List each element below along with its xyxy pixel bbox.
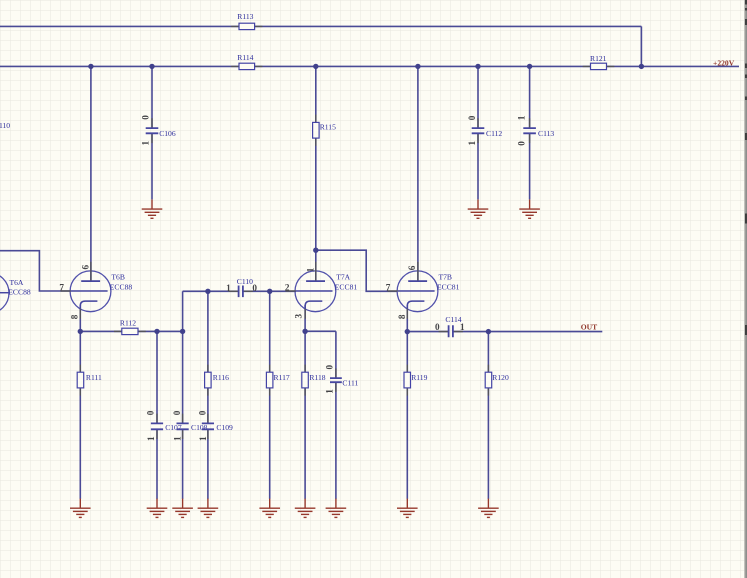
junction R113 branch at bus bbox=[639, 64, 644, 69]
svg-text:1: 1 bbox=[198, 436, 208, 441]
svg-text:R119: R119 bbox=[411, 373, 427, 382]
resistor R113 bbox=[237, 12, 254, 30]
wire C110 right lead bbox=[243, 290, 296, 292]
svg-text:+220V: +220V bbox=[713, 58, 735, 67]
svg-text:8: 8 bbox=[69, 314, 79, 319]
svg-text:C108: C108 bbox=[191, 423, 208, 432]
svg-text:T7B: T7B bbox=[439, 272, 453, 281]
capacitor C111 bbox=[324, 364, 358, 393]
svg-text:0: 0 bbox=[435, 322, 440, 332]
svg-text:C111: C111 bbox=[342, 378, 358, 387]
svg-text:7: 7 bbox=[59, 283, 64, 293]
resistor R120 bbox=[485, 372, 509, 388]
junction T7A cathode node bbox=[302, 329, 307, 334]
svg-text:1: 1 bbox=[324, 389, 334, 394]
triode T6B bbox=[59, 262, 132, 319]
svg-text:0: 0 bbox=[467, 115, 477, 120]
svg-text:C107: C107 bbox=[165, 423, 182, 432]
pin leads R114 bbox=[231, 65, 262, 67]
resistor R114 bbox=[237, 53, 254, 70]
junction R117 branch bbox=[267, 289, 272, 294]
resistor R116 bbox=[205, 372, 230, 388]
triode T7B bbox=[386, 262, 460, 319]
junction R120 branch at output bbox=[486, 329, 491, 334]
wire R119 bbox=[406, 332, 408, 499]
svg-text:C110: C110 bbox=[237, 277, 253, 286]
wire R116 C109 vertical bbox=[207, 291, 209, 423]
wire C108 lower bbox=[182, 429, 184, 499]
svg-text:1: 1 bbox=[140, 140, 150, 145]
svg-text:R112: R112 bbox=[120, 319, 136, 328]
wire bus1 horizontal bbox=[0, 25, 641, 27]
pin leads C111 bbox=[335, 368, 337, 392]
wire C113 upper bbox=[529, 66, 531, 127]
svg-text:0: 0 bbox=[252, 283, 257, 293]
svg-text:3: 3 bbox=[294, 313, 304, 318]
svg-text:2: 2 bbox=[285, 283, 290, 293]
svg-text:1: 1 bbox=[226, 283, 231, 293]
capacitor C106 bbox=[140, 115, 175, 146]
junction T6B cathode node bbox=[78, 329, 83, 334]
junction C107 branch bbox=[154, 329, 159, 334]
wire T6B cathode drop bbox=[79, 305, 81, 331]
pin leads C106 bbox=[151, 118, 153, 143]
wire R120 bbox=[487, 332, 489, 499]
junction C113 at bus bbox=[527, 64, 532, 69]
pin leads R118 bbox=[304, 365, 306, 396]
junction T7B cathode node bbox=[405, 329, 410, 334]
junction C112 at bus bbox=[475, 64, 480, 69]
wire R115 T7A anode bbox=[315, 66, 317, 281]
svg-text:0: 0 bbox=[146, 410, 156, 415]
wire C109 lower bbox=[207, 429, 209, 499]
wire C110 left lead bbox=[183, 290, 239, 292]
ground R119 bbox=[397, 499, 418, 518]
svg-text:C113: C113 bbox=[538, 129, 554, 138]
svg-text:T6B: T6B bbox=[111, 272, 125, 281]
wire C106 lower bbox=[151, 133, 153, 199]
resistor R121 bbox=[590, 54, 607, 70]
ground R120 bbox=[478, 499, 499, 518]
wire C107 upper bbox=[156, 331, 158, 423]
pin leads C114 bbox=[439, 331, 463, 333]
wire C112 upper bbox=[477, 66, 479, 127]
pin leads C108 bbox=[182, 414, 184, 439]
pin leads C109 bbox=[207, 414, 209, 439]
svg-text:R121: R121 bbox=[590, 54, 607, 63]
ground R118 bbox=[295, 499, 316, 518]
svg-text:110: 110 bbox=[0, 121, 10, 130]
svg-text:1: 1 bbox=[173, 436, 183, 441]
svg-text:R116: R116 bbox=[213, 373, 229, 382]
pin leads C113 bbox=[529, 118, 531, 143]
pin leads R111 bbox=[79, 365, 81, 396]
pin leads R115 bbox=[315, 115, 317, 146]
wire bus1 corner drop bbox=[640, 26, 642, 66]
ground C109 bbox=[198, 499, 219, 518]
capacitor C110 bbox=[226, 277, 257, 297]
resistor R115 bbox=[313, 122, 336, 138]
svg-text:0: 0 bbox=[140, 115, 150, 120]
svg-text:R117: R117 bbox=[274, 373, 290, 382]
ground C108 bbox=[172, 499, 193, 518]
ground C106 bbox=[142, 200, 163, 219]
resistor R111 bbox=[77, 372, 102, 388]
ground C111 bbox=[326, 499, 347, 518]
ground C112 bbox=[468, 200, 489, 219]
capacitor C113 bbox=[516, 115, 554, 145]
capacitor C109 bbox=[198, 410, 233, 441]
svg-text:R115: R115 bbox=[320, 123, 336, 132]
wire C107 lower bbox=[156, 429, 158, 499]
svg-text:R120: R120 bbox=[492, 373, 509, 382]
wire C112 lower bbox=[477, 133, 479, 199]
svg-text:6: 6 bbox=[81, 264, 91, 269]
ground R111 bbox=[70, 499, 91, 518]
svg-text:7: 7 bbox=[386, 283, 391, 293]
wire T7B cathode drop bbox=[406, 305, 408, 332]
pin leads R116 bbox=[207, 365, 209, 396]
junction T7A anode branch bbox=[313, 248, 318, 253]
wire T6A anode link bbox=[0, 251, 71, 291]
triode T6A partial bbox=[0, 273, 31, 314]
pin leads C112 bbox=[477, 118, 479, 143]
junction T7B anode at bus bbox=[415, 64, 420, 69]
wire C108 vertical bbox=[182, 291, 184, 423]
wire R111 bbox=[79, 331, 81, 499]
capacitor C114 bbox=[435, 315, 465, 338]
pin leads R113 bbox=[231, 25, 262, 27]
pin leads R120 bbox=[487, 365, 489, 396]
wire C111 upper bbox=[335, 331, 337, 378]
wire R117 vertical bbox=[269, 291, 271, 499]
svg-text:T7A: T7A bbox=[336, 272, 350, 281]
pin leads C110 bbox=[229, 290, 253, 292]
svg-text:C112: C112 bbox=[486, 129, 502, 138]
ground C113 bbox=[519, 200, 540, 219]
svg-text:0: 0 bbox=[516, 141, 526, 146]
pin leads R119 bbox=[406, 365, 408, 396]
svg-text:R114: R114 bbox=[237, 53, 253, 62]
svg-text:ECC81: ECC81 bbox=[437, 282, 460, 291]
pin leads R112 bbox=[114, 330, 146, 332]
svg-text:C109: C109 bbox=[216, 423, 233, 432]
svg-text:1: 1 bbox=[460, 322, 465, 332]
junction R116 branch bbox=[205, 289, 210, 294]
wire T6B anode bbox=[90, 66, 92, 281]
wire T7B anode bbox=[417, 66, 419, 281]
svg-text:8: 8 bbox=[397, 314, 407, 319]
svg-text:R111: R111 bbox=[86, 373, 102, 382]
resistor R118 bbox=[302, 372, 326, 388]
wire cathode row T7A bbox=[305, 330, 336, 332]
svg-text:1: 1 bbox=[516, 115, 526, 120]
resistor R117 bbox=[266, 372, 289, 388]
junction T6B anode at bus bbox=[88, 64, 93, 69]
pin leads R121 bbox=[583, 65, 615, 67]
svg-text:C106: C106 bbox=[159, 129, 176, 138]
wire R118 bbox=[304, 331, 306, 499]
ground C107 bbox=[147, 499, 168, 518]
svg-text:ECC81: ECC81 bbox=[335, 282, 358, 291]
svg-text:ECC88: ECC88 bbox=[110, 282, 133, 291]
svg-text:R118: R118 bbox=[309, 373, 325, 382]
window edge strip right bbox=[744, 0, 747, 578]
svg-text:1: 1 bbox=[146, 436, 156, 441]
junction C108 branch bbox=[180, 329, 185, 334]
wire C111 lower bbox=[335, 382, 337, 499]
junction R115 at bus bbox=[313, 64, 318, 69]
wire C113 lower bbox=[529, 133, 531, 199]
wire output row left bbox=[407, 331, 448, 333]
svg-text:1: 1 bbox=[306, 267, 316, 272]
ground R117 bbox=[259, 499, 280, 518]
wire output row right bbox=[453, 331, 602, 333]
svg-text:OUT: OUT bbox=[581, 322, 597, 331]
wire cathode row T6B bbox=[80, 330, 182, 332]
svg-text:6: 6 bbox=[407, 265, 417, 270]
svg-text:T6A: T6A bbox=[10, 278, 24, 287]
wire bus2 horizontal bbox=[0, 65, 739, 67]
junction C106 at bus bbox=[149, 64, 154, 69]
svg-text:R113: R113 bbox=[237, 12, 253, 21]
triode T7A bbox=[285, 262, 357, 319]
resistor R112 bbox=[120, 319, 138, 335]
svg-text:0: 0 bbox=[172, 410, 182, 415]
pin leads R117 bbox=[269, 365, 271, 396]
pin leads C107 bbox=[156, 414, 158, 439]
svg-text:1: 1 bbox=[467, 140, 477, 145]
wire C106 upper bbox=[151, 66, 153, 128]
capacitor C112 bbox=[467, 115, 502, 145]
wire T7A cathode drop bbox=[304, 305, 306, 331]
capacitor C108 bbox=[172, 410, 208, 441]
svg-text:ECC88: ECC88 bbox=[8, 287, 31, 296]
svg-text:0: 0 bbox=[324, 364, 334, 369]
wire T7A anode to T7B grid bbox=[316, 250, 398, 291]
svg-text:0: 0 bbox=[198, 410, 208, 415]
resistor R119 bbox=[404, 372, 428, 388]
capacitor C107 bbox=[146, 410, 182, 441]
